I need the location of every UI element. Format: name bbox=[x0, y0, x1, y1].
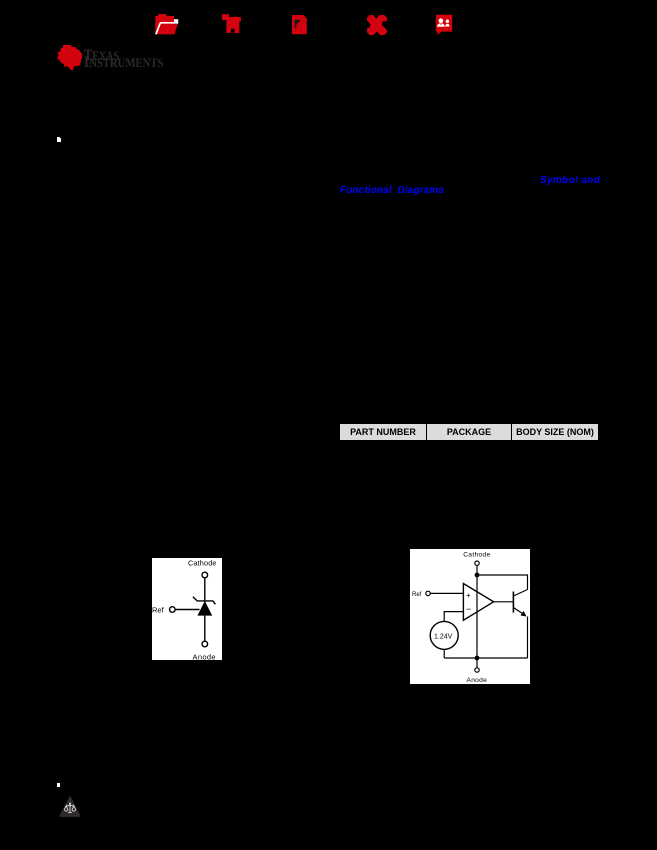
diode triangle (points up) bbox=[197, 601, 212, 616]
open-folder icon (product folder) bbox=[154, 13, 180, 36]
node: anode junction bbox=[475, 656, 480, 661]
chat-people icon (support & community) bbox=[435, 14, 453, 35]
svg-text:Ref: Ref bbox=[152, 606, 165, 615]
wire: emitter to bottom rail bbox=[527, 617, 529, 659]
crossed tools icon (tools & software) bbox=[367, 15, 387, 35]
op-amp U1 bbox=[463, 584, 493, 621]
wire: ref lead bbox=[175, 609, 199, 611]
terminal: ref bbox=[170, 607, 176, 613]
TI logo wordmark: TEXAS INSTRUMENTS bbox=[84, 49, 119, 64]
right figure: functional block diagram on white card bbox=[410, 549, 530, 684]
node: cathode junction bbox=[475, 573, 480, 578]
terminal: cathode bbox=[202, 572, 208, 578]
transistor Q1 base bar bbox=[512, 592, 514, 613]
wire: top rail bbox=[477, 575, 528, 590]
zener cathode bar bbox=[193, 597, 216, 605]
terminal: cathode bbox=[475, 561, 479, 565]
terminal: anode bbox=[202, 641, 208, 647]
table header: PART NUMBER / PACKAGE / BODY SIZE (NOM) bbox=[339, 423, 599, 441]
wire: anode lead bbox=[204, 616, 206, 642]
wire: inverting input to reference source bbox=[444, 612, 463, 622]
transistor Q1 emitter with arrow bbox=[513, 608, 524, 615]
svg-text:+: + bbox=[466, 591, 471, 600]
terminal: anode bbox=[475, 668, 479, 672]
document icon (technical documents) bbox=[292, 15, 307, 35]
svg-text:Cathode: Cathode bbox=[188, 559, 217, 568]
TI logo: Texas state shape bbox=[57, 45, 82, 71]
svg-text:−: − bbox=[466, 604, 471, 614]
blue link: Functional Diagrams bbox=[340, 185, 444, 196]
wire: supply line through op-amp bbox=[476, 575, 478, 658]
svg-text:Cathode: Cathode bbox=[463, 551, 490, 558]
wire: cathode lead bbox=[204, 578, 206, 602]
shopping-cart icon (order now) bbox=[221, 13, 242, 34]
small white document bullet bbox=[57, 137, 61, 142]
svg-text:Anode: Anode bbox=[193, 652, 216, 660]
left figure: shunt regulator symbol on white card bbox=[152, 558, 222, 660]
wire: bottom rail bbox=[444, 657, 527, 659]
wire: op-amp output to transistor base bbox=[494, 601, 514, 603]
svg-text:1.24V: 1.24V bbox=[434, 634, 453, 641]
voltage reference source 1.24V bbox=[430, 621, 458, 649]
wire: node to anode terminal bbox=[476, 658, 478, 668]
legal scales triangle icon bbox=[59, 796, 81, 818]
wire: source to bottom rail bbox=[443, 649, 445, 658]
wire: cathode to node bbox=[476, 565, 478, 576]
wire: ref to op-amp bbox=[430, 592, 463, 594]
small white square bullet bbox=[57, 783, 60, 787]
transistor Q1 collector bbox=[513, 590, 527, 597]
svg-text:Ref: Ref bbox=[412, 592, 422, 598]
svg-text:Anode: Anode bbox=[467, 677, 488, 684]
blue link: Symbol and bbox=[540, 175, 600, 186]
terminal: ref bbox=[426, 591, 430, 595]
